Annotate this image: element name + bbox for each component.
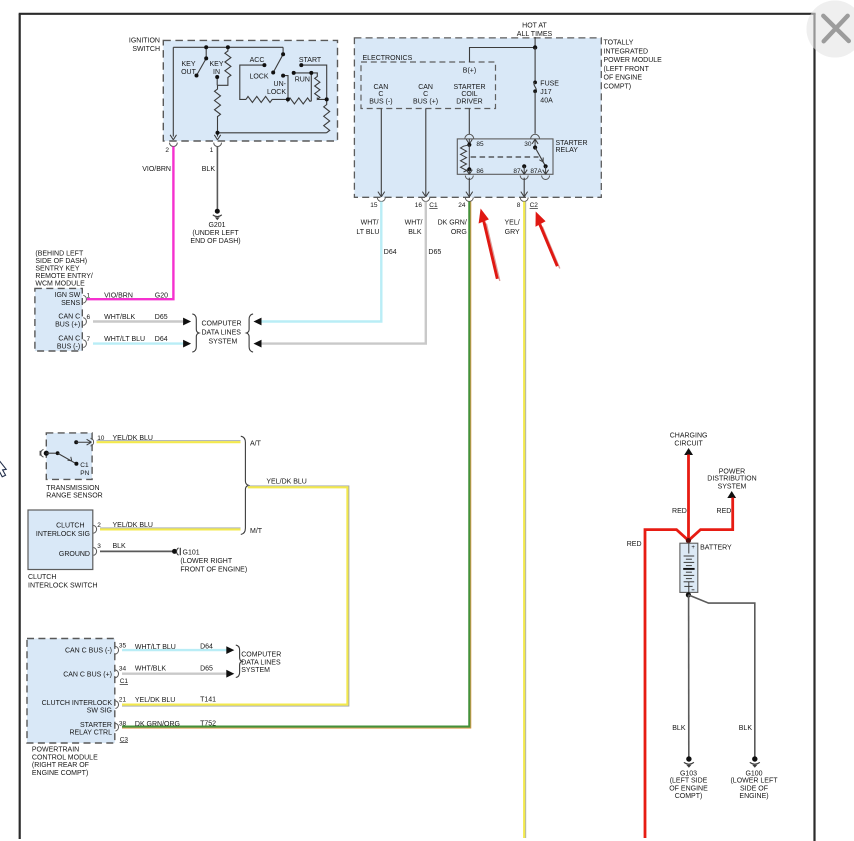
TRS switch common <box>44 451 49 456</box>
electronics box <box>361 62 496 109</box>
arrowhead pin6 wire <box>183 318 191 326</box>
wire WHT/LT BLU from pin7 <box>93 342 184 344</box>
svg-text:(UNDER LEFT: (UNDER LEFT <box>192 230 239 237</box>
svg-text:38: 38 <box>119 721 127 728</box>
svg-text:BLK: BLK <box>202 166 216 173</box>
TRS switch blade <box>58 453 77 463</box>
svg-text:YEL/DK BLU: YEL/DK BLU <box>135 697 175 704</box>
svg-text:2: 2 <box>165 147 169 154</box>
label G103 <box>669 771 708 800</box>
svg-text:BATTERY: BATTERY <box>700 544 732 551</box>
label totally integrated power module <box>604 40 663 91</box>
brace merging A/T and M/T <box>241 436 249 534</box>
svg-text:+: + <box>691 545 695 551</box>
label G100 <box>730 771 778 800</box>
label WCM location <box>35 250 92 287</box>
wire YEL/DK BLU M/T <box>100 528 241 530</box>
arrowhead D64 into computer data lines <box>254 318 262 326</box>
svg-text:J17: J17 <box>540 89 551 96</box>
svg-text:C: C <box>378 91 383 98</box>
svg-text:6: 6 <box>87 314 91 321</box>
svg-text:WHT/LT BLU: WHT/LT BLU <box>135 644 176 651</box>
pin arrows at TIPM bottom <box>378 192 528 197</box>
svg-text:C2: C2 <box>530 202 539 209</box>
svg-text:16: 16 <box>415 202 423 209</box>
wire BLK battery to G103 <box>688 595 690 757</box>
svg-text:KEY: KEY <box>209 61 223 68</box>
svg-text:WCM MODULE: WCM MODULE <box>35 280 85 287</box>
svg-text:CLUTCH INTERLOCK: CLUTCH INTERLOCK <box>42 700 113 707</box>
svg-text:BUS (-): BUS (-) <box>369 98 392 105</box>
svg-text:(RIGHT REAR OF: (RIGHT REAR OF <box>32 762 89 769</box>
svg-text:G20: G20 <box>155 292 168 299</box>
wire hot feed <box>534 37 536 48</box>
wire WHT/LT BLU D64 run <box>261 202 381 322</box>
wire WHT/BLK from pin6 <box>93 320 184 322</box>
svg-text:INTERLOCK SIG: INTERLOCK SIG <box>36 531 90 538</box>
svg-text:DK GRN/: DK GRN/ <box>438 220 467 227</box>
junction dots ignition <box>195 45 329 135</box>
wire RED battery to power distribution <box>689 498 733 541</box>
pin 10 arc <box>91 438 94 446</box>
arrowhead pin35 <box>226 646 234 654</box>
svg-text:BUS (+): BUS (+) <box>413 98 438 105</box>
svg-text:INTERLOCK SWITCH: INTERLOCK SWITCH <box>28 583 98 590</box>
svg-text:LT BLU: LT BLU <box>356 229 379 236</box>
ground G101 splice <box>172 549 177 554</box>
svg-text:FRONT OF ENGINE): FRONT OF ENGINE) <box>180 566 247 573</box>
svg-text:CAN: CAN <box>418 84 433 91</box>
svg-text:(LOWER LEFT: (LOWER LEFT <box>730 777 778 784</box>
svg-text:OUT: OUT <box>181 69 197 76</box>
svg-text:FUSE: FUSE <box>540 81 559 88</box>
svg-text:WHT/BLK: WHT/BLK <box>104 314 135 321</box>
pin 30 arc <box>531 134 540 138</box>
starter relay K1 box <box>457 139 553 174</box>
wire WHT/BLK pcm pin34 <box>122 673 227 675</box>
svg-text:DRIVER: DRIVER <box>456 98 482 105</box>
svg-text:C3: C3 <box>120 736 129 743</box>
svg-text:WHT/LT BLU: WHT/LT BLU <box>104 336 145 343</box>
svg-text:COMPT): COMPT) <box>604 84 632 91</box>
resistor start lower <box>324 99 330 132</box>
wire DK GRN/ORG pin24 run <box>122 202 471 729</box>
svg-text:30: 30 <box>524 141 532 148</box>
svg-text:RED: RED <box>717 508 732 515</box>
arrowhead power distribution <box>727 491 736 498</box>
arrowhead charging circuit <box>684 448 693 455</box>
svg-text:T752: T752 <box>200 721 216 728</box>
unlock contact wire <box>283 76 288 100</box>
svg-text:YEL/DK BLU: YEL/DK BLU <box>113 435 153 442</box>
svg-text:PN: PN <box>80 470 89 477</box>
svg-text:C1: C1 <box>429 202 438 209</box>
svg-text:SIDE OF DASH): SIDE OF DASH) <box>35 258 87 265</box>
svg-text:CAN: CAN <box>374 84 389 91</box>
ground G103 <box>684 756 694 768</box>
svg-text:ACC: ACC <box>250 57 265 64</box>
svg-text:CLUTCH: CLUTCH <box>28 574 56 581</box>
svg-text:ELECTRONICS: ELECTRONICS <box>363 55 413 62</box>
svg-text:END OF DASH): END OF DASH) <box>190 238 240 245</box>
svg-text:RED: RED <box>627 541 642 548</box>
pin 30 arrow <box>532 139 538 147</box>
svg-text:YEL/DK BLU: YEL/DK BLU <box>113 522 153 529</box>
svg-text:7: 7 <box>87 336 91 343</box>
pin 85 arc <box>465 134 474 138</box>
annotation arrow at pin 8 <box>536 212 560 269</box>
svg-text:COMPUTER: COMPUTER <box>241 652 281 659</box>
fuse J17 40A <box>533 48 537 134</box>
WCM pin arcs <box>83 295 86 347</box>
svg-text:POWER MODULE: POWER MODULE <box>604 57 663 64</box>
ground G100 <box>750 756 760 768</box>
svg-text:85: 85 <box>476 141 484 148</box>
svg-text:24: 24 <box>458 202 466 209</box>
svg-text:ENGINE COMPT): ENGINE COMPT) <box>32 770 88 777</box>
svg-text:VIO/BRN: VIO/BRN <box>142 166 171 173</box>
wire WHT/LT BLU pcm pin35 <box>122 649 227 651</box>
svg-text:SW SIG: SW SIG <box>87 708 112 715</box>
wire YEL/GRY pin8 run <box>524 202 526 839</box>
svg-text:G101: G101 <box>183 549 200 556</box>
svg-text:INTEGRATED: INTEGRATED <box>604 48 649 55</box>
svg-text:CAN C BUS (+): CAN C BUS (+) <box>63 671 112 678</box>
ground G201 <box>213 209 222 221</box>
wire RED feed down left <box>645 530 688 838</box>
key out switch <box>205 47 207 58</box>
arrowhead pin34 <box>226 670 234 678</box>
arrowhead D65 into computer data lines <box>254 340 262 348</box>
wire can bus minus drop <box>381 109 524 196</box>
resistor unlock horizontal <box>288 73 311 104</box>
svg-text:(LEFT SIDE: (LEFT SIDE <box>670 777 708 784</box>
svg-text:UN-: UN- <box>274 81 287 88</box>
svg-text:SYSTEM: SYSTEM <box>209 338 238 345</box>
svg-text:STARTER: STARTER <box>556 140 588 147</box>
wire pin1 drop <box>217 133 219 137</box>
PCM module box <box>27 639 115 744</box>
pin 3 arc clutch <box>94 548 97 556</box>
svg-text:CAN C: CAN C <box>58 336 80 343</box>
svg-text:CAN C: CAN C <box>58 314 80 321</box>
resistor key-in lower <box>215 85 221 133</box>
svg-text:C: C <box>423 91 428 98</box>
svg-text:SENTRY KEY: SENTRY KEY <box>35 265 79 272</box>
wire RED battery to charging circuit <box>687 455 690 541</box>
TRS contact to pin 10 <box>74 440 78 444</box>
svg-text:ORG: ORG <box>451 229 467 236</box>
pin 85 arrow <box>466 139 472 144</box>
svg-text:BLK: BLK <box>113 543 127 550</box>
svg-text:A/T: A/T <box>250 440 262 447</box>
svg-text:OF ENGINE: OF ENGINE <box>669 786 708 793</box>
close button circle <box>807 1 854 58</box>
wire WHT/BLK D65 run <box>261 202 426 344</box>
svg-text:C1: C1 <box>120 678 129 685</box>
svg-text:STARTER: STARTER <box>80 722 112 729</box>
wire starter coil driver to relay 85 <box>468 109 470 135</box>
close button X icon <box>823 16 849 42</box>
svg-text:TRANSMISSION: TRANSMISSION <box>46 485 99 492</box>
svg-text:WHT/BLK: WHT/BLK <box>135 666 166 673</box>
svg-text:D64: D64 <box>200 644 213 651</box>
svg-text:ENGINE): ENGINE) <box>739 793 768 800</box>
PCM pin arcs <box>115 646 118 731</box>
svg-text:DATA LINES: DATA LINES <box>241 660 281 667</box>
svg-text:1: 1 <box>210 147 214 154</box>
svg-text:15: 15 <box>370 202 378 209</box>
brace right of computer data lines <box>246 314 253 352</box>
brace computer data lines pcm <box>236 645 242 677</box>
svg-text:YEL/DK BLU: YEL/DK BLU <box>266 479 306 486</box>
svg-text:COMPT): COMPT) <box>675 793 703 800</box>
wire bottom bus <box>218 132 327 134</box>
svg-text:BLK: BLK <box>408 229 422 236</box>
battery positive node <box>686 538 691 543</box>
annotation arrow at pin 24 <box>479 209 500 282</box>
svg-text:D64: D64 <box>155 336 168 343</box>
svg-text:86: 86 <box>476 168 484 175</box>
svg-text:D65: D65 <box>428 249 441 256</box>
svg-text:RELAY CTRL: RELAY CTRL <box>69 729 112 736</box>
pin 2 arc clutch <box>94 525 97 533</box>
svg-text:COMPUTER: COMPUTER <box>202 321 242 328</box>
pin 87A arc <box>542 176 550 180</box>
svg-text:DK GRN/ORG: DK GRN/ORG <box>135 721 180 728</box>
TRS left pin tick <box>39 451 41 456</box>
svg-text:RANGE SENSOR: RANGE SENSOR <box>46 493 102 500</box>
svg-text:G201: G201 <box>208 222 225 229</box>
wire relay87 to pin8 <box>523 178 525 196</box>
svg-text:SENS: SENS <box>61 300 80 307</box>
svg-text:START: START <box>299 57 322 64</box>
pin 86 arc <box>465 176 473 180</box>
close button circle overlay <box>807 1 854 58</box>
svg-text:(LEFT FRONT: (LEFT FRONT <box>604 66 650 73</box>
svg-text:BLK: BLK <box>672 725 686 732</box>
svg-text:OF ENGINE: OF ENGINE <box>604 75 643 82</box>
svg-text:C1: C1 <box>80 462 89 469</box>
svg-text:BUS (-): BUS (-) <box>57 344 80 351</box>
resistor key-in upper <box>218 47 231 85</box>
svg-text:1: 1 <box>87 292 91 299</box>
svg-text:GROUND: GROUND <box>59 551 90 558</box>
svg-text:IGN SW: IGN SW <box>55 292 81 299</box>
svg-text:WHT/: WHT/ <box>405 220 423 227</box>
WCM module box <box>35 288 82 351</box>
wire pin2 drop <box>172 47 174 136</box>
svg-text:TOTALLY: TOTALLY <box>604 40 634 47</box>
svg-text:ALL TIMES: ALL TIMES <box>517 31 553 38</box>
pin cups at TIPM bottom <box>377 198 528 202</box>
arrowhead pin7 wire <box>183 340 191 348</box>
TRS left pin arc <box>41 449 44 457</box>
svg-text:M/T: M/T <box>250 528 263 535</box>
svg-text:POWERTRAIN: POWERTRAIN <box>32 747 79 754</box>
svg-text:REMOTE ENTRY/: REMOTE ENTRY/ <box>35 273 92 280</box>
svg-text:40A: 40A <box>540 98 553 105</box>
transmission range sensor box <box>46 433 92 480</box>
mouse cursor (clipped at left edge) <box>0 459 6 477</box>
battery negative node <box>686 592 691 597</box>
wire YEL/DK BLU merged run to PCM 21 <box>122 486 349 706</box>
svg-text:SWITCH: SWITCH <box>132 46 160 53</box>
wire relay86 to pin24 <box>468 178 470 196</box>
svg-text:34: 34 <box>119 666 127 673</box>
wire BLK to G201 <box>216 147 218 210</box>
TIPM module box <box>354 38 601 197</box>
resistor run branch <box>311 73 326 100</box>
svg-text:RELAY: RELAY <box>556 147 579 154</box>
svg-text:BLK: BLK <box>739 725 753 732</box>
ignition switch S1 box <box>163 40 337 141</box>
svg-text:(LOWER RIGHT: (LOWER RIGHT <box>180 558 232 565</box>
svg-text:D64: D64 <box>384 249 397 256</box>
relay dashed actuator line <box>471 156 539 158</box>
brace left of computer data lines <box>192 314 199 352</box>
svg-text:21: 21 <box>119 696 127 703</box>
svg-text:LOCK: LOCK <box>267 89 286 96</box>
arrow into pin 1 <box>214 135 220 140</box>
svg-text:CLUTCH: CLUTCH <box>56 523 84 530</box>
svg-text:YEL/: YEL/ <box>505 220 520 227</box>
svg-text:WHT/: WHT/ <box>361 220 379 227</box>
svg-text:COIL: COIL <box>461 91 477 98</box>
svg-text:35: 35 <box>119 642 127 649</box>
svg-text:T141: T141 <box>200 696 216 703</box>
svg-text:CIRCUIT: CIRCUIT <box>674 440 703 447</box>
svg-text:DISTRIBUTION: DISTRIBUTION <box>707 475 756 482</box>
svg-text:D65: D65 <box>200 665 213 672</box>
label powertrain control module <box>32 747 98 777</box>
svg-text:RED: RED <box>672 508 687 515</box>
svg-text:(BEHIND LEFT: (BEHIND LEFT <box>35 250 84 257</box>
pin 87 arc <box>520 176 528 180</box>
svg-text:B(+): B(+) <box>463 68 476 75</box>
svg-text:87: 87 <box>513 168 521 175</box>
svg-text:GRY: GRY <box>505 229 520 236</box>
acc contact wire <box>240 65 265 99</box>
wire top bus <box>173 46 283 48</box>
wire BLK battery to G100 <box>688 595 754 757</box>
wire VIO/BRN magenta <box>87 147 173 300</box>
svg-text:SYSTEM: SYSTEM <box>718 484 747 491</box>
wire YEL/DK BLU A/T <box>97 441 241 443</box>
relay switch blade 30-87A <box>533 145 537 149</box>
svg-text:87A: 87A <box>530 168 542 175</box>
svg-text:CHARGING: CHARGING <box>670 433 708 440</box>
svg-text:8: 8 <box>517 202 521 209</box>
key in switch contact wire <box>216 77 218 85</box>
svg-text:SIDE OF: SIDE OF <box>740 786 768 793</box>
wire B(+) jumper <box>470 48 536 63</box>
svg-text:LOCK: LOCK <box>249 74 268 81</box>
pin 86 arrow exit <box>466 169 472 174</box>
wire can bus plus drop <box>425 109 427 196</box>
run contact wire <box>294 72 312 74</box>
svg-text:IGNITION: IGNITION <box>129 37 160 44</box>
svg-text:RUN: RUN <box>295 76 310 83</box>
clutch interlock switch box <box>28 510 93 570</box>
svg-text:VIO/BRN: VIO/BRN <box>104 292 133 299</box>
relay coil <box>467 143 471 147</box>
main switch blade (lock) <box>282 47 284 54</box>
svg-text:CAN C BUS (-): CAN C BUS (-) <box>65 647 112 654</box>
resistor acc horizontal <box>246 96 288 102</box>
svg-text:D65: D65 <box>155 314 168 321</box>
pin 2 connector arc <box>170 143 178 147</box>
arrow into pin 2 <box>170 135 176 140</box>
battery B1 <box>680 543 698 592</box>
svg-text:POWER: POWER <box>719 468 745 475</box>
start contact wire <box>301 65 326 99</box>
svg-text:DATA LINES: DATA LINES <box>202 330 242 337</box>
wire BLK to G101 <box>100 550 173 552</box>
pin 87 contact <box>522 164 526 168</box>
svg-text:CONTROL MODULE: CONTROL MODULE <box>32 754 98 761</box>
svg-text:KEY: KEY <box>181 61 195 68</box>
node B+ junction <box>533 45 537 49</box>
pin 87A arrow exit <box>543 166 549 174</box>
svg-text:SYSTEM: SYSTEM <box>241 667 270 674</box>
svg-text:STARTER: STARTER <box>453 84 485 91</box>
svg-text:IN: IN <box>213 69 220 76</box>
svg-text:BUS (+): BUS (+) <box>55 322 80 329</box>
svg-text:3: 3 <box>97 543 101 550</box>
svg-text:HOT AT: HOT AT <box>522 23 547 30</box>
pin 1 connector arc <box>214 143 222 147</box>
